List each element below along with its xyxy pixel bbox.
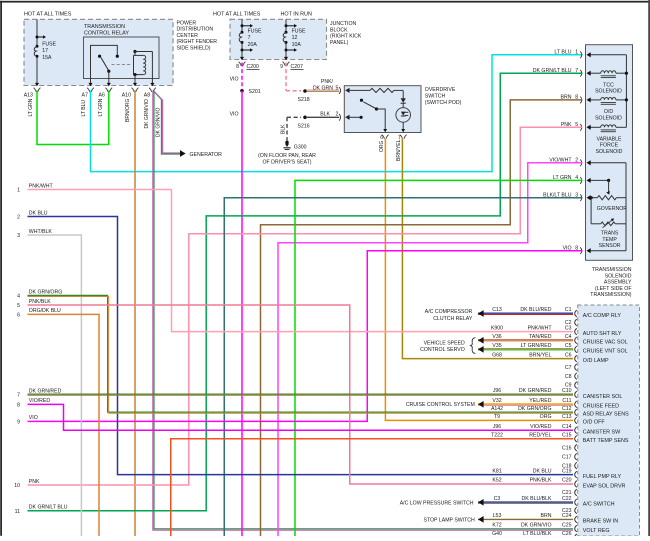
svg-text:C8: C8 — [565, 374, 572, 380]
svg-text:VIO: VIO — [29, 415, 38, 421]
wire ORG/DK BLU from stub 6 — [28, 314, 100, 536]
connector bracket C6 — [575, 355, 577, 362]
svg-text:CENTER: CENTER — [177, 33, 199, 39]
svg-text:K72: K72 — [492, 522, 501, 528]
svg-text:PANEL): PANEL) — [330, 40, 349, 46]
svg-text:8: 8 — [17, 402, 20, 408]
variable force solenoid coil — [590, 126, 601, 128]
svg-text:JUNCTION: JUNCTION — [330, 21, 356, 27]
wire VIO from solenoid pin 8 to stub 9 — [28, 251, 583, 422]
relay fixed contact from pin A7 — [91, 45, 118, 78]
governor resistor — [597, 196, 616, 200]
svg-text:CONTROL RELAY: CONTROL RELAY — [84, 30, 129, 36]
svg-text:(LEFT SIDE OF: (LEFT SIDE OF — [595, 286, 632, 292]
svg-text:C3: C3 — [494, 496, 501, 502]
wire DK GRN/RED from stub 7 to C10 — [28, 393, 574, 395]
wire LT GRN/RED to C5 — [478, 348, 573, 350]
svg-text:C17: C17 — [562, 454, 572, 460]
svg-text:SOLENOID: SOLENOID — [605, 273, 632, 279]
svg-text:17: 17 — [42, 48, 48, 54]
svg-text:C25: C25 — [562, 522, 572, 528]
connector pin A10 — [133, 83, 137, 86]
svg-text:BRAKE SW IN: BRAKE SW IN — [583, 519, 618, 525]
svg-text:OVERDRIVE: OVERDRIVE — [425, 87, 456, 93]
svg-text:T9: T9 — [494, 414, 500, 420]
svg-text:PNK/BLK: PNK/BLK — [29, 299, 51, 305]
svg-text:C1: C1 — [565, 307, 572, 313]
overdrive switch pin 7 exit — [400, 135, 403, 139]
page border left — [0, 1, 2, 536]
svg-text:BLK: BLK — [280, 124, 286, 134]
wire YEL/RED to C11 — [478, 403, 573, 405]
svg-text:DK GRN/VIO: DK GRN/VIO — [144, 99, 150, 129]
connector bracket C5 — [575, 346, 577, 353]
connector bracket C7 — [575, 364, 577, 371]
svg-text:C22: C22 — [562, 496, 572, 502]
svg-text:TRANSMISSION: TRANSMISSION — [84, 24, 125, 30]
svg-text:LT BLU: LT BLU — [554, 50, 571, 56]
svg-text:A/C LOW PRESSURE SWITCH: A/C LOW PRESSURE SWITCH — [400, 500, 474, 506]
svg-text:DK GRN/LT BLU: DK GRN/LT BLU — [29, 505, 68, 511]
wire DK GRN/VIO from A8 to C25 — [154, 91, 573, 529]
connector pin A13 — [35, 83, 39, 86]
svg-text:C3: C3 — [565, 325, 572, 331]
wire DK BLU/BLK to C22 — [478, 501, 573, 503]
svg-text:DK BLU/BLK: DK BLU/BLK — [522, 496, 553, 502]
transmission control relay box — [84, 37, 160, 79]
svg-text:(ON FLOOR PAN, REAR: (ON FLOOR PAN, REAR — [258, 153, 316, 159]
svg-text:A10: A10 — [122, 92, 131, 98]
trans temp sensor — [590, 198, 592, 224]
svg-text:7: 7 — [17, 393, 20, 399]
svg-text:TRANS: TRANS — [601, 231, 619, 237]
svg-text:C14: C14 — [562, 424, 572, 430]
svg-text:9: 9 — [17, 419, 20, 425]
svg-text:HOT AT ALL TIMES: HOT AT ALL TIMES — [213, 12, 261, 18]
wire BLK/LT BLU from solenoid pin 3 — [224, 198, 582, 536]
svg-text:TEMP: TEMP — [602, 237, 617, 243]
wire WHT/BLK from stub 3 — [28, 235, 82, 536]
svg-text:K900: K900 — [491, 325, 503, 331]
solenoid assembly pin 3 BLK/LT BLU — [580, 194, 582, 201]
overdrive switch diode — [401, 98, 406, 103]
wire ORG from overdrive switch pin 6 to C13 — [385, 139, 573, 420]
svg-text:LT GRN: LT GRN — [28, 98, 34, 116]
svg-text:K52: K52 — [492, 478, 501, 484]
svg-text:V32: V32 — [492, 398, 501, 404]
svg-text:C20: C20 — [562, 478, 572, 484]
connector bracket C8 — [575, 373, 577, 380]
connector bracket C11 — [575, 401, 577, 408]
splice S216 — [303, 116, 307, 120]
svg-text:G68: G68 — [492, 352, 502, 358]
svg-text:A8: A8 — [144, 92, 150, 98]
connector bracket C4 — [575, 337, 577, 344]
connector bracket C18 — [575, 462, 577, 469]
solenoid assembly pin 8 BRN — [580, 97, 582, 104]
svg-text:DK GRN/VIO: DK GRN/VIO — [521, 522, 552, 528]
connector bracket C16 — [575, 444, 577, 451]
wire BRN from solenoid pin 8 — [261, 100, 583, 536]
svg-text:CRUISE VNT SOL: CRUISE VNT SOL — [583, 349, 628, 355]
svg-text:20A: 20A — [248, 42, 258, 48]
svg-text:SOLENOID: SOLENOID — [595, 115, 622, 121]
svg-text:(SWITCH POD): (SWITCH POD) — [425, 100, 462, 106]
wire BRN to C24 — [478, 518, 573, 520]
solenoid assembly pin 4 LT GRN — [580, 177, 582, 184]
arrow stop lamp switch — [478, 516, 484, 523]
svg-text:WHT/BLK: WHT/BLK — [29, 229, 53, 235]
svg-text:C24: C24 — [562, 513, 572, 519]
wire LT GRN from A13 to A6 — [37, 91, 109, 145]
svg-text:DISTRIBUTION: DISTRIBUTION — [177, 27, 214, 33]
svg-text:S216: S216 — [298, 124, 310, 130]
overdrive switch contact — [360, 99, 363, 102]
solenoid assembly pin 7 DK GRN/LT BLU — [580, 70, 582, 77]
svg-text:FUSE: FUSE — [248, 29, 262, 35]
svg-text:SOLENOID: SOLENOID — [596, 149, 623, 155]
wire VIO from S201 down — [241, 91, 243, 536]
svg-text:5: 5 — [17, 303, 20, 309]
connector bracket C1 — [575, 310, 577, 317]
connector bracket C13 — [575, 417, 577, 424]
connector bracket C17 — [575, 453, 577, 460]
svg-text:C10: C10 — [562, 388, 572, 394]
svg-text:GOVERNOR: GOVERNOR — [597, 206, 628, 212]
wire PNK/WHT from stub 1 to C3 — [28, 190, 574, 332]
wire DK BLU from stub 2 to C19 — [28, 217, 574, 475]
svg-text:BRN/YEL: BRN/YEL — [529, 352, 551, 358]
splice S201 — [240, 89, 244, 93]
connector pin 9 C207 — [284, 57, 288, 60]
svg-text:BLK: BLK — [320, 111, 330, 117]
TCC solenoid coil — [590, 72, 601, 74]
svg-text:C13: C13 — [492, 307, 502, 313]
arrow vehicle speed control servo C5 — [478, 346, 484, 353]
svg-text:ORG: ORG — [379, 141, 385, 153]
svg-text:VIO/RED: VIO/RED — [29, 398, 51, 404]
relay mechanical link dashed — [112, 64, 133, 66]
svg-text:VIO: VIO — [230, 76, 239, 82]
svg-text:VOLT REG: VOLT REG — [583, 528, 610, 534]
svg-text:EVAP SOL DRVR: EVAP SOL DRVR — [583, 483, 626, 489]
connector pin A8 — [150, 83, 154, 86]
svg-text:3: 3 — [17, 233, 20, 239]
svg-text:FORCE: FORCE — [600, 143, 619, 149]
wire LT BLU from A7 to solenoid pin 1 — [91, 55, 583, 172]
svg-text:A/C SWITCH: A/C SWITCH — [583, 502, 615, 508]
O/D solenoid coil — [590, 99, 601, 101]
wire TAN/RED to C4 — [478, 339, 573, 341]
svg-text:SIDE SHIELD): SIDE SHIELD) — [177, 46, 211, 52]
svg-text:C19: C19 — [562, 468, 572, 474]
svg-text:CRUISE CONTROL SYSTEM: CRUISE CONTROL SYSTEM — [406, 402, 475, 408]
transmission solenoid assembly box — [586, 45, 633, 261]
svg-text:C26: C26 — [562, 531, 572, 536]
wire VIO/WHT from solenoid pin 2 — [278, 163, 583, 536]
svg-text:C5: C5 — [565, 343, 572, 349]
svg-text:A/C COMP RLY: A/C COMP RLY — [583, 313, 622, 319]
connector bracket C15 — [575, 436, 577, 443]
svg-text:CLUTCH RELAY: CLUTCH RELAY — [433, 316, 473, 322]
connector bracket C22 — [575, 499, 577, 506]
connector bracket C12 — [575, 409, 577, 416]
svg-text:FUSE: FUSE — [292, 29, 306, 35]
solenoid assembly pin 8 VIO — [580, 247, 582, 254]
svg-text:CRUISE VAC SOL: CRUISE VAC SOL — [583, 340, 628, 346]
svg-text:C13: C13 — [562, 414, 572, 420]
svg-text:G300: G300 — [294, 144, 307, 150]
svg-text:15A: 15A — [42, 55, 52, 61]
wire VIO/RED from stub 8 to C14 — [28, 404, 574, 430]
connector bracket C10 — [575, 391, 577, 398]
svg-text:YEL/RED: YEL/RED — [529, 398, 551, 404]
connector bracket C24 — [575, 516, 577, 523]
svg-text:J96: J96 — [493, 388, 501, 394]
svg-text:C15: C15 — [562, 433, 572, 439]
wire PNK/DK GRN from S218 to overdrive switch pin 5 — [307, 89, 339, 91]
svg-text:6: 6 — [380, 135, 383, 141]
svg-text:C4: C4 — [565, 334, 572, 340]
svg-text:10A: 10A — [292, 42, 302, 48]
svg-text:S218: S218 — [298, 97, 310, 103]
connector bracket C23 — [575, 507, 577, 514]
svg-text:4: 4 — [17, 294, 20, 300]
page border top — [0, 1, 649, 3]
fuse 12 10A — [285, 19, 287, 59]
svg-text:A/C COMPRESSOR: A/C COMPRESSOR — [425, 309, 473, 315]
svg-text:FUSE: FUSE — [42, 42, 56, 48]
relay switch arm — [98, 55, 101, 58]
svg-text:CANISTER SW: CANISTER SW — [583, 430, 621, 436]
svg-text:SOLENOID: SOLENOID — [595, 89, 622, 95]
svg-text:DK GRN/RED: DK GRN/RED — [519, 388, 552, 394]
svg-text:DK GRN: DK GRN — [313, 85, 333, 91]
svg-text:LT GRN: LT GRN — [98, 98, 104, 116]
svg-text:VEHICLE SPEED: VEHICLE SPEED — [424, 341, 465, 347]
svg-text:G40: G40 — [492, 531, 502, 536]
svg-text:BRN: BRN — [541, 513, 552, 519]
svg-text:DK BLU: DK BLU — [533, 468, 552, 474]
overdrive switch box — [344, 86, 421, 133]
connector bracket C20 — [575, 481, 577, 488]
svg-text:C11: C11 — [562, 398, 571, 404]
svg-text:PNK: PNK — [29, 479, 40, 485]
arrow vehicle speed control servo C4 — [478, 337, 484, 344]
svg-text:V35: V35 — [492, 343, 501, 349]
wire BLK from S216 to overdrive switch pin 2 — [307, 116, 339, 118]
svg-text:C16: C16 — [562, 445, 572, 451]
svg-text:12: 12 — [292, 35, 298, 41]
svg-text:6: 6 — [17, 312, 20, 318]
solenoid assembly pin 5 PNK — [580, 124, 582, 131]
svg-text:ORG: ORG — [540, 414, 552, 420]
svg-text:A142: A142 — [491, 406, 503, 412]
solenoid feed wire from pin 1 — [590, 54, 627, 56]
svg-text:DK GRN/VIO: DK GRN/VIO — [155, 107, 161, 137]
wire RED/YEL to C15 — [171, 439, 573, 536]
governor wiring — [590, 162, 627, 164]
connector bracket C3 — [575, 328, 577, 335]
wire BLK dashed from S216 to G300 — [287, 116, 301, 118]
svg-text:7: 7 — [248, 35, 251, 41]
svg-text:DK GRN/ORG: DK GRN/ORG — [518, 406, 551, 412]
arrow cruise control system — [478, 401, 484, 408]
wire DK GRN/ORG from stub 4 to C12 — [28, 295, 574, 412]
solenoid assembly pin 1 LT BLU — [580, 51, 582, 58]
relay coil — [133, 55, 135, 74]
svg-text:PNK/WHT: PNK/WHT — [528, 325, 553, 331]
svg-text:O/D LAMP: O/D LAMP — [583, 358, 609, 364]
svg-text:ASD RELAY SENS: ASD RELAY SENS — [583, 412, 629, 418]
svg-text:HOT IN RUN: HOT IN RUN — [281, 12, 312, 18]
svg-text:RED/YEL: RED/YEL — [529, 433, 551, 439]
connector pin A6 — [107, 83, 111, 86]
svg-text:V36: V36 — [492, 334, 501, 340]
svg-text:L53: L53 — [493, 513, 502, 519]
connector bracket C14 — [575, 427, 577, 434]
fuse 7 20A — [241, 19, 243, 59]
brace vehicle speed control servo — [471, 338, 476, 354]
svg-text:9: 9 — [280, 64, 283, 70]
svg-text:FUEL PMP RLY: FUEL PMP RLY — [583, 474, 622, 480]
overdrive switch pin 5 — [339, 87, 341, 94]
wire PNK/BLK from stub 5 to C20 — [28, 305, 574, 484]
wire VIO from fuse 7 C200 dashed to S201 — [241, 63, 243, 90]
pin 8 lower wire — [590, 250, 627, 252]
junction block box — [230, 19, 327, 59]
svg-text:TRANSMISSION: TRANSMISSION — [592, 267, 632, 273]
connector bracket C21 — [575, 489, 577, 496]
svg-text:VIO: VIO — [230, 112, 239, 118]
wire LT GRN from solenoid pin 4 — [295, 180, 583, 536]
wire BRN/YEL from overdrive switch pin 7 to C6 — [402, 139, 573, 359]
svg-text:LT BLU/BLK: LT BLU/BLK — [523, 531, 552, 536]
wire DK BLU/RED to C1 — [478, 312, 573, 314]
svg-text:1: 1 — [575, 50, 578, 56]
svg-text:2: 2 — [17, 215, 20, 221]
svg-text:O/D OFF: O/D OFF — [583, 420, 606, 426]
svg-text:PNK/: PNK/ — [321, 79, 334, 85]
svg-text:ASSEMBLY: ASSEMBLY — [604, 280, 632, 286]
svg-text:BATT TEMP SENS: BATT TEMP SENS — [583, 438, 629, 444]
svg-text:TAN/RED: TAN/RED — [529, 334, 552, 340]
connector bracket C2 — [575, 319, 577, 326]
svg-text:SWITCH: SWITCH — [425, 94, 446, 100]
svg-text:C7: C7 — [565, 365, 572, 371]
svg-text:10: 10 — [14, 483, 20, 489]
ground G300 — [285, 141, 288, 144]
connector bracket C26 — [575, 534, 577, 541]
overdrive switch indicator LED — [396, 108, 411, 123]
fuse 17 15A — [36, 19, 38, 85]
svg-text:GENERATOR: GENERATOR — [190, 152, 223, 158]
svg-text:LT BLU: LT BLU — [81, 100, 87, 117]
arrow A/C low pressure switch — [478, 499, 484, 506]
svg-text:SENSOR: SENSOR — [599, 243, 621, 249]
svg-text:BRN/YEL: BRN/YEL — [396, 139, 402, 161]
svg-text:S201: S201 — [249, 89, 261, 95]
overdrive switch pin 6 exit — [382, 135, 385, 139]
svg-text:OF DRIVER'S SEAT): OF DRIVER'S SEAT) — [262, 159, 311, 165]
connector pin 8 C200 — [240, 57, 244, 60]
svg-text:5: 5 — [336, 85, 339, 91]
svg-text:(RIGHT KICK: (RIGHT KICK — [330, 34, 362, 40]
wire DK GRN/LT BLU from solenoid pin 7 to stub 11 — [28, 73, 583, 511]
svg-text:TCC: TCC — [603, 82, 614, 88]
svg-text:DK GRN/RED: DK GRN/RED — [29, 388, 62, 394]
svg-text:8: 8 — [236, 64, 239, 70]
power distribution center box — [24, 19, 173, 85]
page border right — [648, 0, 650, 536]
svg-text:TRANSMISSION): TRANSMISSION) — [590, 292, 631, 298]
svg-text:DK GRN/ORG: DK GRN/ORG — [29, 290, 62, 296]
svg-text:LT GRN/RED: LT GRN/RED — [521, 343, 552, 349]
svg-text:ORG/DK BLU: ORG/DK BLU — [29, 308, 61, 314]
connector bracket C9 — [575, 382, 577, 389]
svg-text:DK BLU: DK BLU — [29, 210, 48, 216]
svg-text:11: 11 — [15, 509, 20, 515]
wire DK GRN/VIO from A8 to generator — [153, 91, 181, 155]
svg-text:A6: A6 — [99, 92, 105, 98]
connector bracket C25 — [575, 525, 577, 532]
svg-text:CONTROL SERVO: CONTROL SERVO — [420, 347, 465, 353]
solenoid assembly pin 2 VIO/WHT — [580, 159, 582, 166]
svg-text:O/D: O/D — [604, 109, 613, 115]
svg-text:PNK/WHT: PNK/WHT — [29, 183, 54, 189]
wire BRN/ORG from A10 — [134, 91, 136, 537]
overdrive switch resistor — [370, 88, 394, 92]
svg-text:BRN/ORG: BRN/ORG — [125, 99, 131, 122]
svg-text:VIO/RED: VIO/RED — [530, 424, 552, 430]
svg-text:HOT AT ALL TIMES: HOT AT ALL TIMES — [24, 12, 72, 18]
splice S218 — [303, 89, 307, 93]
svg-text:VARIABLE: VARIABLE — [597, 136, 623, 142]
svg-text:2: 2 — [336, 111, 339, 117]
svg-text:A13: A13 — [24, 92, 33, 98]
generator arrow — [180, 150, 186, 157]
wire PNK from solenoid pin 5 to stub 10 — [28, 127, 583, 485]
svg-text:C12: C12 — [562, 406, 572, 412]
svg-text:(RIGHT FENDER: (RIGHT FENDER — [177, 39, 218, 45]
svg-text:K81: K81 — [492, 468, 501, 474]
arrow A/C compressor clutch relay — [478, 310, 484, 317]
svg-text:DK BLU/RED: DK BLU/RED — [520, 307, 551, 313]
svg-text:CRUISE FEED: CRUISE FEED — [583, 404, 619, 410]
svg-text:CANISTER SOL: CANISTER SOL — [583, 394, 623, 400]
svg-text:1: 1 — [17, 188, 20, 194]
svg-text:POWER: POWER — [177, 20, 197, 26]
svg-text:J96: J96 — [493, 424, 501, 430]
svg-text:T222: T222 — [491, 433, 503, 439]
svg-text:BLOCK: BLOCK — [330, 27, 348, 33]
svg-text:A7: A7 — [82, 92, 88, 98]
svg-text:AUTO SHT RLY: AUTO SHT RLY — [583, 331, 622, 337]
overdrive switch pin 2 — [339, 114, 341, 121]
svg-text:C6: C6 — [565, 352, 572, 358]
svg-text:PNK/BLK: PNK/BLK — [530, 478, 552, 484]
wire PNK/DK GRN dashed from fuse 12 C207 to S218 — [285, 63, 287, 91]
PCM connector panel box — [578, 305, 640, 536]
connector bracket C19 — [575, 471, 577, 478]
svg-text:STOP LAMP SWITCH: STOP LAMP SWITCH — [423, 517, 475, 523]
connector pin A7 — [88, 83, 92, 86]
